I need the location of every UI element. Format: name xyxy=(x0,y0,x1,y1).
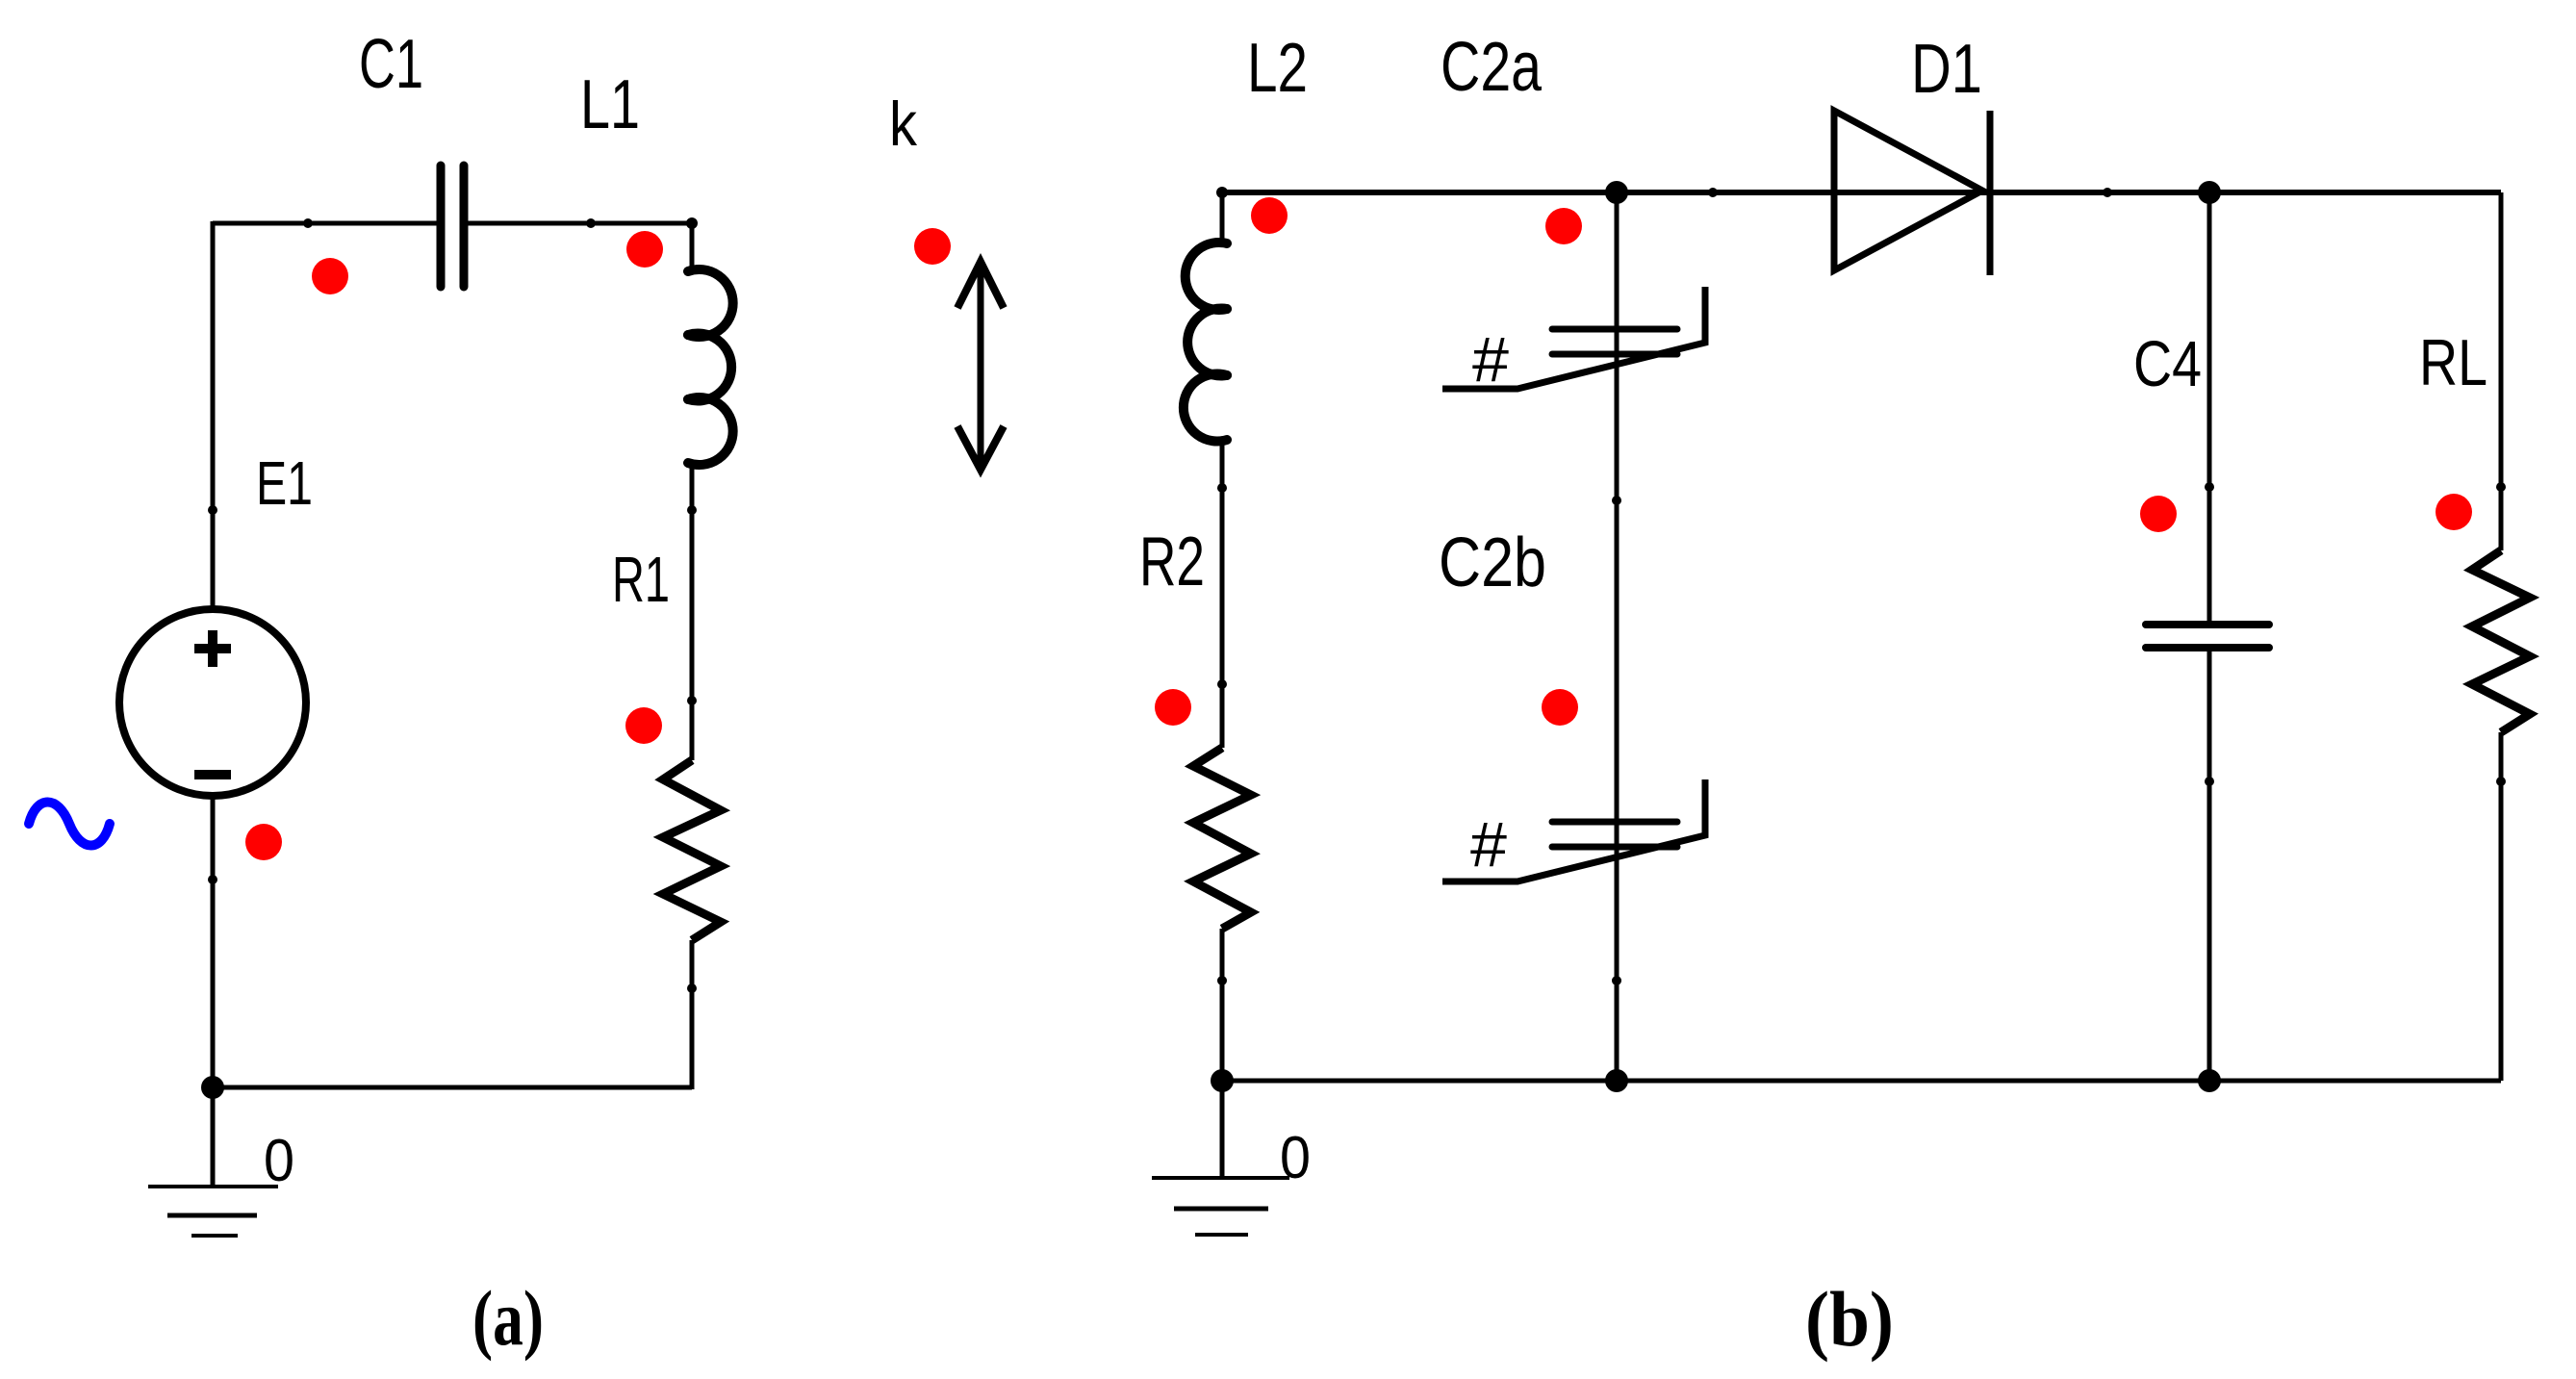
probe dot below E1 xyxy=(245,824,282,860)
trimmer capacitor C2a plates xyxy=(1552,329,1677,354)
pin dot D1 cathode xyxy=(2103,188,2112,197)
probe dot near C1 xyxy=(312,258,348,294)
pin dot C2 mid lower xyxy=(1612,976,1621,985)
wire RL branch lower xyxy=(2499,732,2504,1081)
probe dot near RL xyxy=(2436,494,2472,530)
svg-text:0: 0 xyxy=(1280,1125,1311,1191)
probe dot near C4 xyxy=(2140,496,2177,532)
svg-text:C2a: C2a xyxy=(1441,29,1543,106)
E1 minus sign xyxy=(194,770,231,779)
svg-text:R2: R2 xyxy=(1139,524,1205,600)
ground (b) symbol xyxy=(1152,1178,1289,1235)
voltage source E1 xyxy=(119,609,306,796)
trimmer C2b adjust arm xyxy=(1442,779,1705,881)
svg-text:C4: C4 xyxy=(2133,328,2202,400)
ground (a) stub xyxy=(211,1087,216,1187)
svg-text:0: 0 xyxy=(264,1128,294,1194)
coupling arrow shaft xyxy=(978,264,984,468)
pin dot R2 top xyxy=(1217,679,1227,689)
pin dot E1 top xyxy=(208,505,217,515)
pin dot L1 bottom xyxy=(687,505,697,515)
pin dot C1 left xyxy=(303,218,313,228)
svg-text:k: k xyxy=(889,89,917,159)
junction dot bottom-left (a) xyxy=(201,1076,224,1099)
svg-text:L1: L1 xyxy=(580,66,640,143)
probe dot near C2a xyxy=(1545,208,1582,244)
svg-text:D1: D1 xyxy=(1911,31,1982,108)
trimmer C2a adjust arm xyxy=(1442,287,1705,389)
probe dot near C2b xyxy=(1542,689,1578,726)
wire bottom rail (b) xyxy=(1222,1079,2501,1084)
ground (a) symbol xyxy=(148,1187,278,1236)
coupling arrow head top xyxy=(957,262,1004,308)
pin dot L2 bottom xyxy=(1217,483,1227,493)
wire R1 bottom to rail xyxy=(690,940,695,1089)
wire top-left horizontal (E1 top to C1 left plate) xyxy=(213,221,441,226)
diode D1 triangle xyxy=(1834,111,1982,270)
junction dot bottom C4 branch xyxy=(2198,1069,2221,1092)
ground (b) stub xyxy=(1220,1081,1225,1178)
wire C2 branch vertical xyxy=(1615,192,1620,1081)
capacitor C1 xyxy=(441,166,464,287)
wire L1 top stub xyxy=(690,221,695,270)
svg-text:(b): (b) xyxy=(1805,1275,1894,1363)
wire between L2 and R2 xyxy=(1220,441,1225,748)
probe dot k xyxy=(914,228,951,265)
junction dot top C2 branch xyxy=(1605,181,1628,204)
svg-text:RL: RL xyxy=(2419,326,2487,399)
pin dot RL bottom xyxy=(2496,777,2506,786)
wire RL branch upper xyxy=(2499,192,2504,550)
wire left vertical lower (E1 circle bottom to bottom rail) xyxy=(211,796,216,1087)
wire R2 bottom to rail xyxy=(1220,929,1225,1081)
pin dot D1 anode xyxy=(1708,188,1718,197)
junction dot bottom R2 xyxy=(1211,1069,1234,1092)
probe dot near R1 xyxy=(625,707,662,744)
junction dot top C4 branch xyxy=(2198,181,2221,204)
svg-text:#: # xyxy=(1472,323,1509,395)
resistor R1 xyxy=(663,760,721,940)
wire top rail (b) xyxy=(1222,190,2501,195)
wire bottom rail (a) xyxy=(213,1085,692,1090)
wire C4 branch upper xyxy=(2207,192,2212,625)
pin dot C4 bottom xyxy=(2205,777,2214,786)
wire C4 branch lower xyxy=(2207,648,2212,1081)
wire between L1 and R1 xyxy=(690,464,695,760)
E1 plus sign xyxy=(194,630,231,667)
inductor L1 xyxy=(688,269,733,465)
pin dot E1 bottom xyxy=(208,875,217,884)
pin dot RL top xyxy=(2496,482,2506,492)
wire left vertical upper (corner to E1 circle top) xyxy=(211,221,216,609)
pin dot R1 top xyxy=(687,696,697,705)
svg-text:R1: R1 xyxy=(612,544,670,616)
svg-text:C2b: C2b xyxy=(1439,524,1546,601)
wire top-right horizontal (C1 right plate to L1 corner) xyxy=(464,221,692,226)
diode D1 cathode bar xyxy=(1987,111,1994,275)
trimmer capacitor C2b plates xyxy=(1552,822,1677,847)
wire L2 top stub xyxy=(1220,191,1225,243)
resistor RL xyxy=(2472,550,2530,732)
pin dot C1 right xyxy=(586,218,596,228)
E1 sine marker xyxy=(29,803,110,846)
pin dot L1 corner xyxy=(686,217,698,229)
junction dot bottom C2 branch xyxy=(1605,1069,1628,1092)
pin dot C4 top xyxy=(2205,482,2214,492)
resistor R2 xyxy=(1193,748,1251,929)
pin dot C2 mid upper xyxy=(1612,496,1621,505)
probe dot near R2 xyxy=(1155,689,1191,726)
capacitor C4 xyxy=(2146,625,2269,648)
svg-text:L2: L2 xyxy=(1247,30,1308,107)
pin dot R2 bottom xyxy=(1217,976,1227,985)
svg-text:E1: E1 xyxy=(256,448,313,518)
inductor L2 xyxy=(1184,243,1227,442)
svg-text:C1: C1 xyxy=(359,26,423,103)
pin dot L2 corner xyxy=(1216,187,1228,198)
svg-text:#: # xyxy=(1470,808,1507,880)
pin dot R1 bottom xyxy=(687,983,697,993)
probe dot near L2 xyxy=(1251,197,1288,234)
probe dot near L1 xyxy=(626,231,663,268)
coupling arrow head bottom xyxy=(957,426,1004,470)
svg-text:(a): (a) xyxy=(472,1274,544,1362)
